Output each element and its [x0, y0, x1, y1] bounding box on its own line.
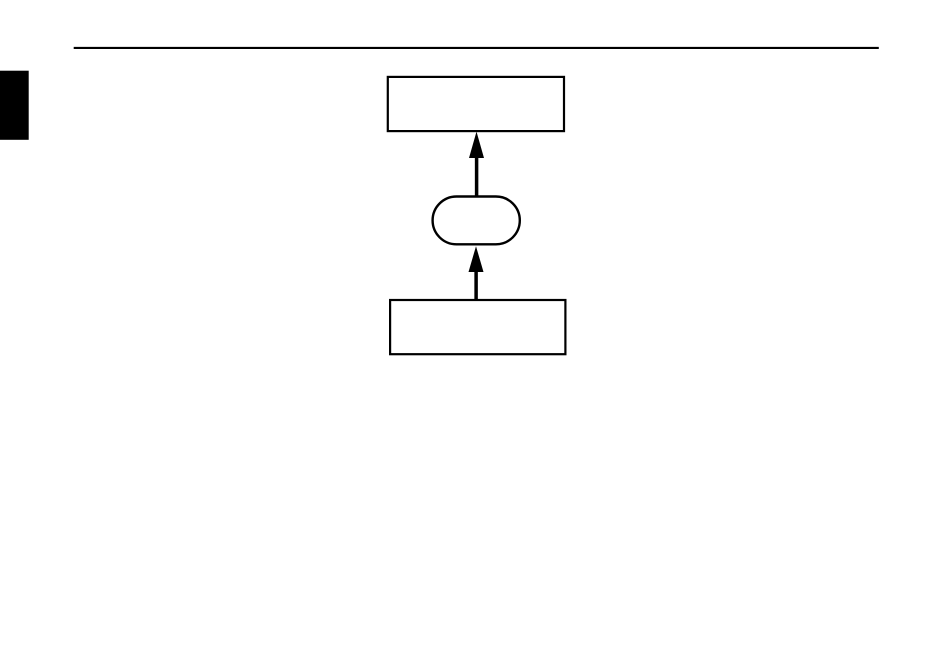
- stadium (rounded terminator): [433, 197, 520, 245]
- top process box: [388, 77, 564, 131]
- page header rule: [74, 47, 879, 49]
- bottom process box: [390, 300, 565, 354]
- arrowhead pointing up into stadium: [469, 246, 484, 272]
- thumb tab (black index marker on left page edge): [0, 71, 29, 140]
- arrowhead pointing up into top box: [469, 132, 484, 158]
- wire: arrow shaft from bottom box to stadium: [474, 272, 478, 301]
- wire: arrow shaft from stadium to top box: [475, 158, 479, 197]
